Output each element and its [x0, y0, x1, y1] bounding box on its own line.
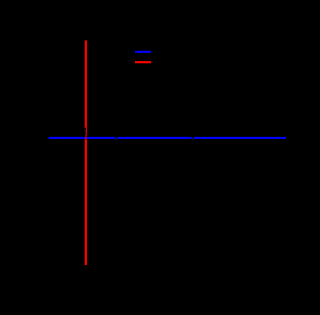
- red curve segment upper: [85, 40, 87, 127]
- blue curve dip blob 1: [116, 138, 118, 140]
- red curve diagonal through crossing: [85, 132, 88, 140]
- red curve thin sliver through notch: [86, 128, 88, 133]
- blue curve segment 2: [118, 137, 192, 139]
- legend handle red: [135, 61, 151, 63]
- blue curve dip blob 2: [192, 138, 194, 140]
- red curve dip blob: [84, 129, 86, 132]
- blue curve segment 1: [49, 137, 116, 139]
- red curve segment lower: [85, 139, 87, 265]
- blue curve segment 3: [194, 137, 286, 139]
- legend handle blue: [135, 51, 151, 53]
